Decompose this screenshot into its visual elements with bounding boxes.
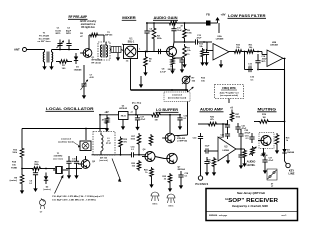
- svg-text:MPS2222A: MPS2222A: [92, 59, 103, 62]
- svg-text:LM78L05: LM78L05: [119, 108, 127, 110]
- resistor R24 emitter: [150, 167, 154, 178]
- svg-text:1N4148: 1N4148: [287, 151, 295, 154]
- svg-text:R14: R14: [12, 161, 17, 164]
- svg-text:R5: R5: [149, 59, 153, 61]
- svg-text:FREQ MITE: FREQ MITE: [222, 87, 236, 90]
- svg-text:LOCAL OSCILLATOR: LOCAL OSCILLATOR: [46, 106, 94, 111]
- label +9V: [220, 13, 225, 17]
- svg-text:FB: FB: [206, 13, 210, 17]
- svg-text:U2A: U2A: [217, 35, 222, 38]
- capacitor C11 decoupling: [171, 22, 176, 42]
- wire freq mite: [228, 99, 230, 104]
- svg-text:Pri 2T#28: Pri 2T#28: [39, 35, 50, 37]
- wire base Q2: [154, 51, 167, 53]
- filter F1: [111, 47, 121, 53]
- resistor R10: [233, 50, 243, 54]
- svg-text:2N3904: 2N3904: [178, 168, 186, 171]
- op-amp U2B: [267, 42, 283, 67]
- wire T5 to LO rail: [85, 129, 87, 141]
- LO top wire: [22, 128, 108, 130]
- capacitor C22 opamp top: [225, 131, 230, 139]
- label R14b: [10, 178, 18, 183]
- note arrow to crystal: [55, 175, 64, 193]
- svg-text:100k: 100k: [236, 117, 241, 119]
- svg-text:C2: C2: [67, 28, 71, 30]
- label U1: [128, 39, 135, 44]
- label C27: [269, 158, 274, 163]
- svg-text:RF-tight box: RF-tight box: [81, 26, 95, 29]
- svg-text:U2B: U2B: [272, 42, 277, 44]
- inductor L1 coil: [101, 133, 103, 155]
- ground under C24: [205, 168, 209, 176]
- svg-text:MYL: MYL: [262, 61, 267, 63]
- svg-text:U3: U3: [225, 147, 229, 149]
- varactor D2: [44, 173, 48, 185]
- svg-text:MIXER: MIXER: [122, 15, 136, 20]
- svg-text:U6: U6: [122, 106, 124, 108]
- ground under R25: [168, 184, 172, 192]
- svg-text:R13: R13: [13, 150, 18, 152]
- resistor R9 bias divider: [201, 48, 205, 58]
- antenna connector J1: [23, 48, 27, 52]
- label PHONES: [195, 183, 208, 186]
- svg-text:.0047: .0047: [262, 58, 268, 61]
- diode D1: [74, 53, 78, 64]
- freq mite box: [215, 85, 244, 99]
- wire Q2 collector up: [172, 42, 175, 47]
- label R22: [124, 139, 129, 144]
- svg-text:2N3904: 2N3904: [168, 68, 176, 71]
- label R2: [80, 33, 84, 38]
- transistor Q5 oscillator: [78, 160, 90, 169]
- LO left wire down: [21, 129, 23, 147]
- resistor R2 collector load: [89, 33, 99, 37]
- svg-text:R25: R25: [162, 176, 167, 178]
- wire ANT to T1: [27, 49, 45, 51]
- svg-text:(thru S1a): (thru S1a): [132, 102, 142, 105]
- svg-text:100: 100: [62, 68, 66, 70]
- label R10: [236, 45, 241, 50]
- wire U2A out: [229, 51, 233, 53]
- svg-text:3 4: 3 4: [126, 60, 129, 63]
- svg-text:ver 1: ver 1: [281, 215, 287, 217]
- diode D3: [282, 146, 286, 156]
- label Q8: [260, 153, 268, 158]
- svg-text:100k: 100k: [187, 33, 192, 35]
- label C14 rail: [131, 146, 136, 152]
- trimmer capacitor C7: [81, 79, 88, 91]
- label R27: [236, 114, 241, 119]
- label R4: [157, 35, 162, 41]
- svg-text:1k: 1k: [286, 140, 289, 142]
- label C7: [90, 75, 95, 80]
- svg-text:43pF: 43pF: [66, 29, 72, 32]
- resistor R23 base: [137, 160, 141, 171]
- svg-text:42IF103: 42IF103: [105, 34, 113, 37]
- svg-text:4T: 4T: [271, 183, 274, 186]
- capacitor C14 rail: [129, 152, 136, 157]
- svg-text:(varies): (varies): [43, 189, 50, 191]
- section title LO BUFFER: [156, 107, 179, 112]
- svg-text:SBL-1: SBL-1: [128, 41, 135, 43]
- svg-text:4.7uF: 4.7uF: [160, 70, 166, 73]
- svg-text:+9V: +9V: [104, 111, 109, 114]
- capacitor C21: [235, 123, 240, 133]
- wire LPF output down right side: [284, 70, 286, 123]
- plug pictorial: [267, 169, 277, 188]
- wire U3 output: [236, 148, 242, 150]
- svg-text:D1: D1: [76, 67, 80, 69]
- wire buffer rail: [92, 154, 147, 156]
- svg-text:on 3/8” form: on 3/8” form: [38, 41, 51, 43]
- label D2: [43, 187, 50, 192]
- label R13: [12, 150, 17, 155]
- capacitor C27: [262, 156, 267, 166]
- ground under C11: [67, 169, 71, 180]
- ground under R5: [143, 68, 147, 76]
- label +9V middle: [104, 111, 109, 114]
- ground under C7: [82, 91, 86, 99]
- capacitor C24 below U3: [204, 157, 209, 168]
- wire R15 to varactor: [35, 168, 55, 170]
- trimmer pictorial C7b: [40, 199, 46, 214]
- resistor R15 tuning: [31, 167, 42, 171]
- ferrite bead FB1: [206, 21, 211, 26]
- svg-text:E B C: E B C: [169, 206, 174, 208]
- label Y1: [53, 153, 62, 160]
- svg-text:R24: R24: [144, 169, 149, 172]
- resistor R7 divider: [182, 44, 186, 68]
- label C14 values: [250, 77, 255, 82]
- svg-text:LO BUFFER: LO BUFFER: [156, 107, 178, 112]
- capacitor C12: [255, 54, 260, 70]
- wire to audio level: [240, 149, 242, 156]
- title block club line: [237, 191, 265, 195]
- wire +9V rail: [146, 22, 206, 24]
- mixer pin numbers: [122, 44, 140, 63]
- capacitor C18 output: [178, 171, 183, 181]
- svg-text:0.1: 0.1: [29, 183, 33, 185]
- resistor R31 rail: [102, 115, 109, 132]
- wire R17 to rail: [138, 146, 140, 155]
- section title MIXER: [122, 15, 137, 20]
- svg-text:C19: C19: [245, 136, 250, 138]
- svg-text:L1: L1: [107, 138, 109, 140]
- svg-text:C11: C11: [177, 28, 181, 30]
- svg-text:LM386: LM386: [223, 150, 230, 152]
- wire muting node: [254, 122, 285, 147]
- svg-text:2T: 2T: [107, 141, 110, 143]
- svg-text:100k: 100k: [131, 139, 136, 141]
- label C12: [262, 55, 268, 63]
- svg-text:10k: 10k: [192, 80, 196, 82]
- label Q5: [92, 161, 96, 163]
- wire junction A down: [175, 90, 188, 136]
- ground U2A: [219, 60, 223, 68]
- svg-text:AUDIO: AUDIO: [247, 160, 256, 164]
- key jack J3: [286, 163, 290, 167]
- label R26: [210, 117, 215, 122]
- wire R2 to T2: [99, 35, 104, 42]
- svg-text:0.1: 0.1: [131, 149, 135, 151]
- resistor R6 collector load: [183, 22, 187, 42]
- VXO note line 2: [52, 200, 96, 202]
- svg-text:KEY: KEY: [289, 169, 295, 173]
- label C2: [66, 28, 72, 36]
- svg-text:R12: R12: [124, 139, 129, 141]
- wire to key jack: [285, 156, 287, 164]
- section title RF PRE-AMP: [68, 14, 88, 19]
- svg-text:+5: +5: [130, 111, 133, 113]
- svg-text:R19: R19: [262, 114, 267, 116]
- oscillator output transformer T5: [80, 141, 91, 151]
- svg-text:Junction A: Junction A: [61, 138, 71, 141]
- ground under C17: [135, 123, 139, 131]
- svg-text:47uF: 47uF: [197, 37, 203, 40]
- label R5: [149, 59, 153, 64]
- ground under C15: [178, 123, 182, 130]
- wire into U2A: [200, 42, 213, 51]
- power terminal J4: [132, 102, 142, 116]
- phones jack J2: [193, 133, 203, 180]
- svg-text:R7: R7: [187, 48, 190, 50]
- label C1: [55, 28, 61, 36]
- label C23: [205, 146, 210, 148]
- svg-text:enclosed in a: enclosed in a: [81, 24, 96, 26]
- transistor Q8 muting: [258, 133, 274, 149]
- svg-text:U1: U1: [130, 39, 134, 41]
- svg-text:AUDIO GAIN: AUDIO GAIN: [154, 15, 178, 20]
- svg-text:C1: C1: [57, 28, 61, 30]
- svg-text:D3: D3: [287, 150, 290, 152]
- svg-text:“SOP” RECEIVER: “SOP” RECEIVER: [225, 198, 278, 204]
- wire Q6 to Q7: [155, 157, 164, 159]
- label C21: [242, 126, 247, 131]
- label Q6: [143, 149, 147, 151]
- svg-text:R9: R9: [14, 178, 18, 180]
- svg-text:C11: 82pF 3.579 - 3.581 MHz (7: C11: 82pF 3.579 - 3.581 MHz (7.01 - 7.07…: [52, 200, 96, 202]
- svg-text:D2: D2: [46, 187, 49, 189]
- svg-text:Q5: Q5: [92, 161, 96, 163]
- transistor Q6 buffer: [142, 152, 155, 162]
- label C10: [29, 181, 33, 186]
- svg-text:Sec 9T#28: Sec 9T#28: [39, 38, 50, 40]
- svg-text:R17: R17: [131, 136, 136, 138]
- resistor R22 bias: [119, 137, 123, 155]
- svg-text:R2: R2: [80, 33, 84, 35]
- label Q3: [177, 136, 188, 143]
- svg-text:40T #30: 40T #30: [100, 157, 107, 160]
- svg-text:C18: C18: [185, 173, 190, 175]
- capacitor C13 feedback: [247, 67, 253, 72]
- svg-text:Audio “Freq-Mite” brd: Audio “Freq-Mite” brd: [220, 92, 239, 95]
- svg-text:RF PRE-AMP: RF PRE-AMP: [69, 14, 88, 19]
- wire +9V rail middle: [99, 114, 118, 132]
- svg-text:8: 8: [122, 44, 123, 46]
- svg-text:10k: 10k: [12, 164, 16, 166]
- label R7b: [187, 48, 191, 53]
- label R12 values: [201, 78, 206, 83]
- supply +9 audio: [230, 107, 233, 112]
- capacitor C25 output: [238, 129, 243, 149]
- variable capacitor C1: [57, 40, 64, 50]
- svg-text:51: 51: [149, 61, 152, 63]
- svg-text:1: 1: [139, 48, 140, 50]
- svg-text:PHONES: PHONES: [195, 183, 208, 186]
- svg-text:C14: C14: [262, 55, 267, 58]
- freq mite title: [221, 87, 237, 90]
- label AUDIO LEVEL: [247, 160, 256, 167]
- wire audio amp input: [198, 123, 207, 125]
- wire pot to ground bus: [185, 84, 187, 90]
- capacitor C15: [177, 115, 182, 123]
- label R21 value: [286, 138, 291, 143]
- svg-text:C8: C8: [162, 69, 166, 71]
- section title LOW PASS FILTER: [228, 13, 267, 18]
- svg-text:E B C: E B C: [153, 204, 158, 206]
- resistor R14 RIT lower: [20, 173, 24, 186]
- transformer T1: [43, 50, 52, 63]
- ground under C18: [179, 181, 183, 189]
- label R11: [249, 45, 254, 50]
- capacitor C9 bias bypass: [204, 49, 209, 58]
- label D1: [74, 67, 82, 72]
- svg-text:C9: C9: [29, 181, 32, 183]
- capacitor C26: [238, 151, 243, 161]
- potentiometer R7 AF gain: [182, 76, 190, 84]
- ground under T2: [116, 53, 120, 61]
- svg-text:100k: 100k: [12, 152, 17, 154]
- resistor R16: [144, 113, 162, 117]
- svg-text:10uF: 10uF: [177, 30, 182, 32]
- svg-text:C4: C4: [150, 28, 154, 31]
- svg-text:C10: C10: [72, 159, 77, 161]
- label C6: [197, 35, 203, 40]
- resistor R11: [246, 50, 256, 54]
- resistor R17 gate: [137, 133, 141, 146]
- wire T1 to preamp: [52, 49, 80, 51]
- svg-text:Junction A: Junction A: [172, 94, 182, 97]
- svg-text:10k: 10k: [187, 50, 191, 52]
- svg-text:47: 47: [181, 25, 184, 28]
- svg-text:C17: C17: [269, 158, 274, 160]
- svg-text:C21: C21: [242, 126, 247, 128]
- svg-text:R10: R10: [236, 45, 241, 47]
- ground muting: [261, 146, 279, 157]
- label Q7: [178, 167, 186, 172]
- svg-text:(intermediate board): (intermediate board): [168, 97, 187, 100]
- label C20: [219, 135, 225, 140]
- U2A power pin: [218, 23, 220, 33]
- label R6: [187, 30, 192, 35]
- svg-text:C14: C14: [131, 146, 136, 149]
- capacitor C10: [33, 169, 38, 180]
- svg-text:3.58 MHz: 3.58 MHz: [54, 156, 63, 158]
- svg-text:0.1: 0.1: [184, 118, 188, 120]
- svg-text:NTE 458: NTE 458: [177, 137, 186, 140]
- svg-text:C16: C16: [250, 77, 255, 79]
- op-amp U2A: [213, 35, 229, 60]
- label R24: [144, 169, 149, 175]
- svg-text:+9V: +9V: [220, 13, 225, 17]
- transistor Q3 buffer JFET: [162, 133, 175, 143]
- svg-text:0.1: 0.1: [246, 138, 250, 140]
- svg-text:47k: 47k: [210, 118, 214, 121]
- svg-text:C20: C20: [220, 135, 225, 137]
- inductor L1 box: [93, 132, 115, 156]
- svg-text:NPO: NPO: [66, 33, 71, 35]
- svg-text:R11: R11: [249, 45, 254, 47]
- title block designer: [232, 205, 268, 208]
- svg-text:R1: R1: [62, 65, 66, 67]
- wire mixer IF out: [138, 51, 163, 53]
- capacitor C8 audio: [160, 69, 166, 74]
- resistor R25 emitter Q7: [168, 173, 172, 184]
- label FB1: [206, 13, 210, 17]
- svg-text:LOW PASS FILTER: LOW PASS FILTER: [228, 13, 266, 18]
- capacitor C7 bypass: [173, 53, 191, 73]
- svg-text:or MPF102: or MPF102: [177, 141, 188, 143]
- section title LOCAL OSCILLATOR: [46, 106, 95, 111]
- wire U2B feedback: [245, 52, 286, 70]
- svg-text:R7: R7: [192, 78, 196, 80]
- label RIT TUNE: [11, 161, 17, 170]
- mixer U1: [124, 45, 138, 59]
- title block border: [206, 189, 298, 221]
- svg-text:C7: C7: [90, 75, 94, 77]
- ground under R24: [149, 178, 153, 188]
- resistor R13 RIT upper: [20, 147, 24, 160]
- junction A intermediate board box: [164, 92, 190, 102]
- capacitor C4: [144, 23, 149, 52]
- svg-text:C7: C7: [40, 212, 43, 214]
- svg-text:(see text): (see text): [53, 157, 62, 160]
- wire mixer LO port down: [130, 59, 132, 91]
- capacitor C20: [223, 120, 230, 132]
- svg-text:1T: 1T: [271, 186, 274, 188]
- svg-text:4-20: 4-20: [90, 76, 95, 79]
- wire U4 output: [128, 111, 144, 115]
- svg-text:47uF: 47uF: [269, 159, 274, 162]
- transistor Q2: [164, 47, 177, 57]
- svg-text:Y1: Y1: [57, 153, 60, 155]
- title block version: [281, 215, 287, 217]
- crystal Y1: [53, 166, 68, 174]
- svg-text:C25: C25: [245, 130, 250, 132]
- svg-text:47k: 47k: [124, 141, 128, 144]
- svg-text:NPO: NPO: [56, 33, 61, 35]
- svg-text:.001: .001: [248, 66, 253, 68]
- svg-text:(oscillator board): (oscillator board): [58, 140, 74, 143]
- svg-text:All RF circuitry: All RF circuitry: [79, 20, 97, 23]
- ground under C27: [263, 166, 267, 174]
- svg-text:(see text): (see text): [99, 159, 108, 162]
- ground under T1 primary: [42, 62, 46, 70]
- ground bus wire: [131, 89, 189, 91]
- svg-text:10k: 10k: [201, 80, 205, 82]
- svg-text:47uF: 47uF: [141, 118, 146, 121]
- svg-text:1N4148: 1N4148: [74, 68, 82, 71]
- junction A oscillator board note: [58, 138, 80, 148]
- ground under C10: [33, 179, 37, 192]
- ground under R28: [212, 168, 216, 176]
- TO-92 pictorial Q7: [167, 194, 175, 208]
- svg-text:R21: R21: [286, 138, 291, 140]
- ground under bias divider: [200, 58, 208, 66]
- svg-text:LM1458: LM1458: [216, 38, 224, 41]
- svg-text:10k: 10k: [132, 166, 136, 168]
- svg-text:Q2: Q2: [170, 66, 174, 68]
